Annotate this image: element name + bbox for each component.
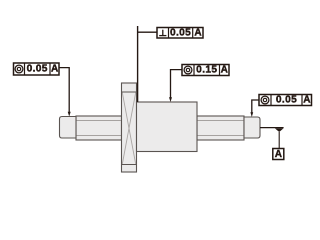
svg-text:A: A — [221, 65, 228, 76]
feature control frame middle: concentricity 0.15 A — [182, 65, 229, 76]
svg-text:0.05: 0.05 — [276, 95, 297, 106]
feature control frame top: perpendicularity 0.05 A — [157, 28, 203, 39]
hub cylinder — [137, 102, 198, 152]
right shaft section — [197, 116, 244, 140]
svg-text:0.05: 0.05 — [27, 64, 48, 75]
datum triangle — [275, 128, 284, 132]
leader: right frame to right cap — [250, 100, 259, 117]
left end cap — [60, 117, 77, 139]
leader: top frame to flange face extension line — [138, 26, 157, 102]
flange disc — [122, 83, 137, 172]
svg-text:0.15: 0.15 — [196, 65, 217, 76]
leader: left frame to left cap — [59, 68, 71, 117]
left shaft section — [76, 116, 122, 140]
leader: middle frame to hub top — [169, 70, 182, 102]
svg-text:A: A — [275, 149, 282, 160]
svg-text:0.05: 0.05 — [170, 28, 191, 39]
feature control frame left: concentricity 0.05 A — [14, 63, 60, 75]
datum label box A — [273, 149, 284, 160]
svg-text:A: A — [303, 95, 310, 106]
feature control frame right: concentricity 0.05 A — [259, 95, 312, 106]
datum axis extension line — [260, 127, 284, 129]
right end cap — [244, 117, 260, 138]
svg-text:A: A — [51, 64, 58, 75]
datum leader line — [278, 132, 280, 149]
svg-text:A: A — [194, 28, 201, 39]
